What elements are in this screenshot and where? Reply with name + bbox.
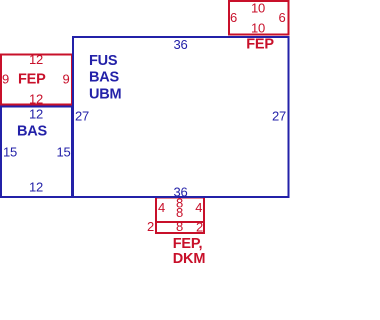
svg-text:27: 27 [272, 109, 286, 124]
svg-text:6: 6 [230, 10, 237, 25]
svg-text:9: 9 [2, 72, 9, 87]
svg-text:12: 12 [29, 180, 43, 195]
svg-text:FEP: FEP [18, 72, 46, 88]
svg-text:2: 2 [196, 220, 203, 235]
svg-text:2: 2 [147, 219, 154, 234]
BAS left outline [1, 107, 72, 198]
svg-text:DKM: DKM [173, 251, 206, 267]
svg-text:15: 15 [56, 145, 70, 160]
main FUS/BAS/UBM outline [73, 37, 289, 197]
svg-text:8: 8 [176, 205, 183, 220]
svg-text:4: 4 [158, 200, 165, 215]
svg-text:15: 15 [3, 145, 17, 160]
svg-text:10: 10 [251, 1, 265, 16]
svg-text:6: 6 [278, 10, 285, 25]
porch FEP top-right outline [229, 1, 289, 35]
svg-text:36: 36 [173, 37, 187, 52]
svg-text:BAS: BAS [17, 124, 48, 140]
svg-text:12: 12 [29, 92, 43, 107]
bottom FEP section outline [156, 198, 204, 223]
svg-text:12: 12 [29, 107, 43, 122]
bottom DKM section outline [156, 222, 204, 233]
svg-text:12: 12 [29, 52, 43, 67]
svg-text:FEP,: FEP, [173, 236, 203, 252]
svg-text:9: 9 [62, 72, 69, 87]
svg-text:UBM: UBM [89, 87, 122, 103]
svg-text:FUS: FUS [89, 53, 118, 69]
porch FEP left outline [1, 55, 72, 105]
svg-text:27: 27 [75, 109, 89, 124]
svg-text:BAS: BAS [89, 70, 120, 86]
svg-text:10: 10 [251, 21, 265, 36]
svg-text:FEP: FEP [246, 37, 274, 53]
svg-text:8: 8 [176, 219, 183, 234]
svg-text:4: 4 [195, 200, 202, 215]
